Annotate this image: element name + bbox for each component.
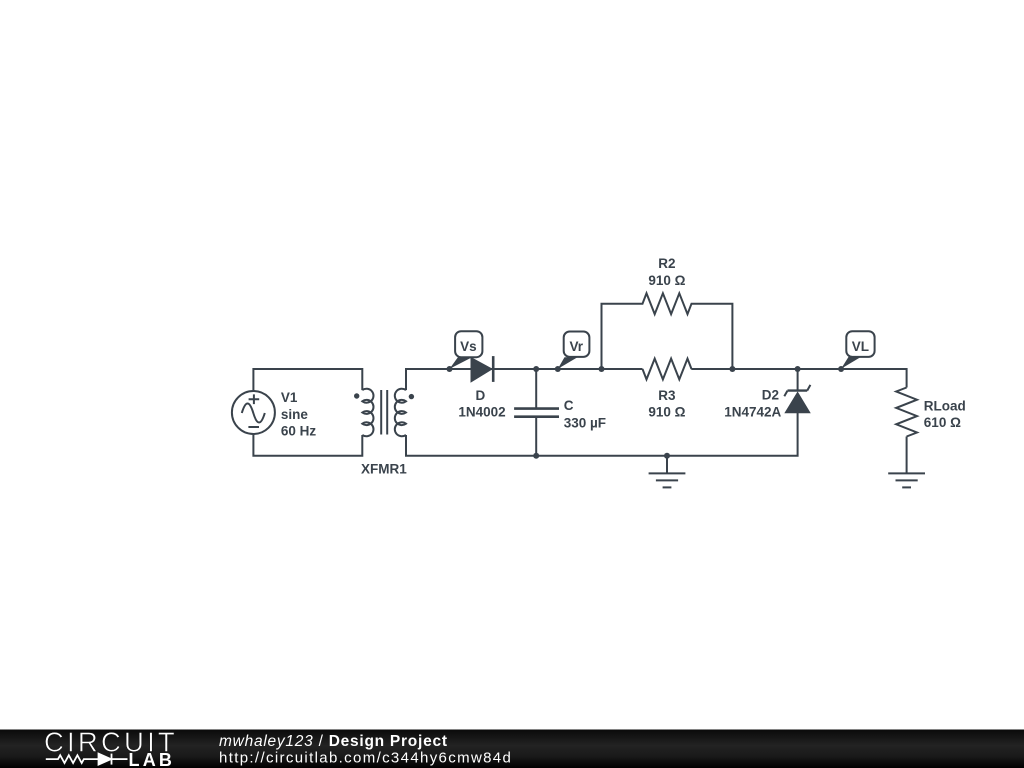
node dot ground [664,453,670,459]
resistor RLoad [896,388,917,437]
svg-text:D2: D2 [762,387,779,402]
svg-text:sine: sine [281,407,309,422]
svg-text:mwhaley123 / Design Project: mwhaley123 / Design Project [219,733,448,750]
zener diode D2 1N4742A [784,385,810,412]
svg-text:330 µF: 330 µF [564,415,606,430]
svg-text:910 Ω: 910 Ω [648,404,685,419]
svg-text:LAB: LAB [129,750,176,768]
svg-text:910 Ω: 910 Ω [648,273,685,288]
svg-text:D: D [476,388,486,403]
resistor R3 [643,359,692,380]
svg-text:V1: V1 [281,390,298,405]
wire RLoad to ground [906,437,908,474]
node dot VL [838,366,844,372]
node dot R2 left [599,366,605,372]
node dot Vs [447,366,453,372]
svg-text:Vs: Vs [460,339,477,354]
diode D 1N4002 [472,356,494,382]
capacitor C [514,369,559,456]
wire secondary bottom [406,412,798,456]
node dot cap bottom [533,453,539,459]
node flag Vr [558,332,590,369]
wire zener to main [797,369,799,391]
svg-text:C: C [564,398,574,413]
ground (main) [649,456,686,488]
svg-text:RLoad: RLoad [924,399,966,414]
node dot R2 right [729,366,735,372]
node flag VL [841,331,875,369]
polarity dot left [354,393,359,398]
transformer XFMR1 [362,389,406,437]
svg-text:R2: R2 [658,256,675,271]
wire primary loop bottom [253,434,362,456]
logo resistor-diode wire [46,754,128,765]
voltage source V1 [232,391,275,434]
svg-text:Vr: Vr [569,339,583,354]
svg-text:1N4002: 1N4002 [458,404,505,419]
footer bar [0,730,1024,768]
svg-text:610 Ω: 610 Ω [924,415,961,430]
svg-text:R3: R3 [658,388,676,403]
svg-text:http://circuitlab.com/c344hy6c: http://circuitlab.com/c344hy6cmw84d [219,749,512,766]
wire top right [691,369,906,388]
node flag Vs [450,331,483,369]
ground (load) [888,473,925,487]
node dot cap top [533,366,539,372]
svg-text:XFMR1: XFMR1 [361,461,407,476]
node dot zener top [795,366,801,372]
node dot Vr [555,366,561,372]
polarity dot right [409,394,414,399]
wire primary loop top [253,369,362,391]
svg-text:VL: VL [852,339,869,354]
wire secondary top [406,369,643,390]
svg-text:60 Hz: 60 Hz [281,424,317,439]
svg-text:1N4742A: 1N4742A [724,405,781,420]
resistor R2 branch [602,293,733,369]
